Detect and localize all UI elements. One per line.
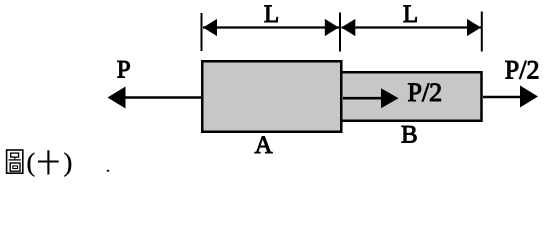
svg-text:L: L	[403, 1, 418, 28]
force P/2 line inside B	[343, 97, 383, 100]
bar A (left, thicker)	[202, 61, 341, 132]
caption glyph 圖 lower box	[10, 163, 20, 171]
dim arrowhead right (points right)	[467, 19, 481, 36]
caption glyph 十 vertical stroke	[47, 150, 49, 174]
caption glyph 圖 outer frame	[7, 150, 23, 173]
force P line (left)	[124, 96, 204, 99]
dim arrowhead mid-right (points right)	[325, 19, 339, 36]
dimension tick middle	[339, 13, 341, 52]
force P/2 arrowhead inside B (points right)	[381, 88, 399, 108]
caption glyph 十 horizontal stroke	[38, 160, 59, 162]
dimension line segment 2	[342, 26, 482, 28]
svg-text:L: L	[264, 1, 279, 28]
force P/2 arrowhead right (points right)	[520, 86, 538, 108]
dimension line segment 1	[203, 26, 339, 28]
force P arrowhead (points left)	[108, 87, 126, 109]
dim arrowhead left (points left)	[203, 19, 217, 36]
svg-text:P/2: P/2	[505, 56, 540, 85]
svg-text:B: B	[401, 122, 418, 149]
caption glyph 圖 middle horizontal line	[9, 159, 21, 161]
svg-text:(: (	[27, 148, 36, 177]
small period after caption	[107, 170, 109, 172]
svg-text:A: A	[254, 132, 272, 159]
dim arrowhead mid-left (points left)	[341, 19, 355, 36]
svg-text:): )	[64, 148, 73, 177]
caption glyph 圖 middle connector	[14, 157, 16, 160]
force P/2 line right	[483, 96, 522, 99]
svg-text:P: P	[117, 57, 131, 84]
bar B (right, thinner, drawn behind A)	[336, 72, 482, 121]
svg-text:P/2: P/2	[408, 78, 443, 107]
dimension tick left	[201, 13, 203, 51]
dimension tick right	[481, 12, 483, 52]
caption glyph 圖 lower inner box	[13, 166, 18, 169]
caption glyph 圖 top small box	[11, 153, 19, 157]
